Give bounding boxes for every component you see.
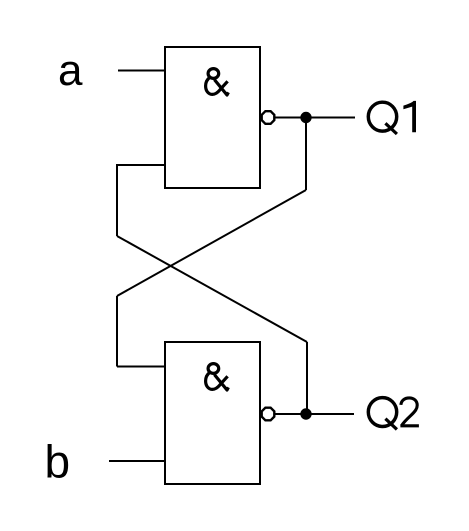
U1 output inversion bubble xyxy=(262,111,275,124)
wire U1 input 2 horizontal xyxy=(117,164,165,166)
output label Q1 letter Q xyxy=(368,102,397,134)
wire Q1 output xyxy=(275,117,355,119)
wire diagonal Q1 feedback to lower right xyxy=(117,236,307,342)
svg-text:b: b xyxy=(45,436,71,488)
U1 function label & xyxy=(206,69,229,95)
output label Q1 digit 1 xyxy=(403,101,416,132)
wire a to U1 input 1 xyxy=(118,70,165,72)
wire right vertical down to Q2 node xyxy=(306,342,308,414)
output label Q2 digit 2 xyxy=(400,398,419,426)
wire b to U2 input 2 xyxy=(109,460,165,462)
wire left vertical from U1 input 2 xyxy=(116,164,118,236)
NAND gate U2 (bottom) body xyxy=(165,342,260,484)
wire U2 input 1 horizontal xyxy=(117,366,165,368)
U2 function label & xyxy=(206,364,229,390)
junction dot node Q1 xyxy=(300,112,311,123)
wire vertical from node Q1 down xyxy=(305,118,307,191)
svg-text:a: a xyxy=(58,46,83,95)
NAND gate U1 (top) body xyxy=(165,47,260,188)
wire left vertical down to U2 input 1 xyxy=(116,296,118,367)
U2 output inversion bubble xyxy=(262,408,275,421)
wire Q2 output xyxy=(275,413,354,415)
wire diagonal Q1 to U2 input (crossing) xyxy=(117,190,306,296)
output label Q2 letter Q xyxy=(368,398,397,430)
junction dot node Q2 xyxy=(300,408,311,419)
